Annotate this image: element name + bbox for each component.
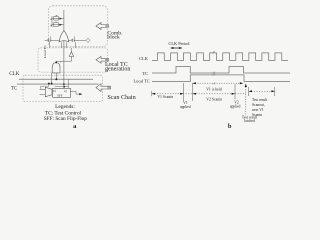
and gate input from TC line [51, 73, 53, 84]
block arrow comb block [96, 23, 109, 30]
svg-text:block: block [107, 34, 120, 40]
break mark on dashed annotation [213, 83, 215, 85]
svg-text:Test result: Test result [252, 98, 267, 102]
V1 is held dashed arrow [193, 82, 244, 84]
test result latched dashed arrow [245, 87, 247, 116]
svg-text:CLK: CLK [139, 56, 149, 61]
local TC generation dashed box [38, 48, 108, 72]
Local TC waveform [152, 75, 290, 82]
second input drop [59, 61, 61, 62]
junction dots on TC line [48, 83, 50, 85]
wire buffer output down [70, 57, 72, 62]
clk wire to SFF clock [67, 79, 69, 88]
annotation tick x192.5 [192, 83, 194, 101]
mux gate scan cell [45, 87, 52, 96]
svg-text:applied: applied [230, 105, 241, 109]
annotation tick x183.5 [183, 83, 185, 101]
mux input wires [40, 88, 46, 90]
TC line [17, 83, 99, 85]
CLK period double arrow [171, 47, 182, 49]
break mark on CLK [212, 51, 214, 53]
svg-text:next V1: next V1 [252, 108, 264, 112]
annotation tick x235 [234, 84, 236, 99]
svg-text:Local TC: Local TC [43, 44, 47, 58]
svg-text:latched: latched [244, 119, 255, 123]
comb block dashed box [48, 6, 107, 47]
keeper transistor M1 [54, 15, 59, 20]
and gate U2 pointing up [52, 63, 60, 73]
junction dot above SFF [63, 86, 65, 88]
svg-text:Local TC: Local TC [134, 79, 150, 84]
keeper transistor M2 [54, 22, 59, 27]
svg-text:V1 Scanin: V1 Scanin [157, 95, 173, 99]
annotation tick x152 [151, 91, 153, 96]
svg-text:SFF: SFF [57, 93, 63, 97]
wire to output diamond node [77, 39, 86, 41]
svg-text:V2 Scanin: V2 Scanin [206, 98, 222, 102]
diamond node [86, 38, 90, 42]
or gate U1 pointing up [59, 31, 69, 42]
SFF box [53, 88, 71, 97]
svg-text:CLK: CLK [9, 71, 20, 77]
svg-text:b: b [228, 123, 232, 130]
buffer triangle [69, 52, 73, 57]
svg-text:V1 is held: V1 is held [206, 87, 222, 91]
junction dot at and gate output [55, 62, 57, 64]
and gate input from CLK line [55, 73, 57, 79]
scan chain dashed box [23, 75, 103, 101]
pass transistor QL with bubble [45, 39, 48, 41]
scan out wire with arrowhead [71, 92, 80, 95]
svg-text:generation: generation [105, 66, 130, 72]
svg-text:Legends:: Legends: [55, 104, 75, 110]
svg-text:SFF: Scan Flip-Flop: SFF: Scan Flip-Flop [44, 116, 88, 122]
annotation tick x274.8 [274, 87, 276, 96]
keeper drain connections to net [59, 17, 64, 19]
annotation arrowheads [152, 93, 155, 95]
CLK line [19, 78, 93, 80]
annotation tick x248.6 [248, 87, 250, 96]
wire pass transistor to buffer [70, 48, 72, 52]
block arrow local TC generation [96, 56, 109, 63]
main annotation dashed line [152, 93, 246, 95]
block arrow scan chain [96, 84, 111, 92]
junction dot CLK and gate [55, 78, 57, 80]
TC waveform [152, 67, 290, 74]
keeper gate rail [51, 16, 53, 27]
keeper plus marks [50, 18, 52, 26]
pass transistor column drops [49, 42, 51, 48]
wire vertical net down from comb block [63, 10, 65, 88]
or gate input drops [61, 42, 63, 48]
break mark on Local TC [212, 74, 214, 76]
horizontal wire to and gate [56, 60, 71, 62]
break mark on TC [212, 72, 214, 74]
wire TC tap into mux region [41, 84, 49, 90]
svg-text:CLK Period: CLK Period [169, 41, 191, 46]
CLK waveform [152, 53, 288, 61]
svg-text:applied: applied [180, 105, 191, 109]
svg-text:TC: TC [11, 86, 17, 91]
pass transistor QR with bubble [69, 39, 72, 41]
svg-text:TC: TC [143, 71, 149, 76]
svg-text:Scan Chain: Scan Chain [107, 94, 135, 101]
